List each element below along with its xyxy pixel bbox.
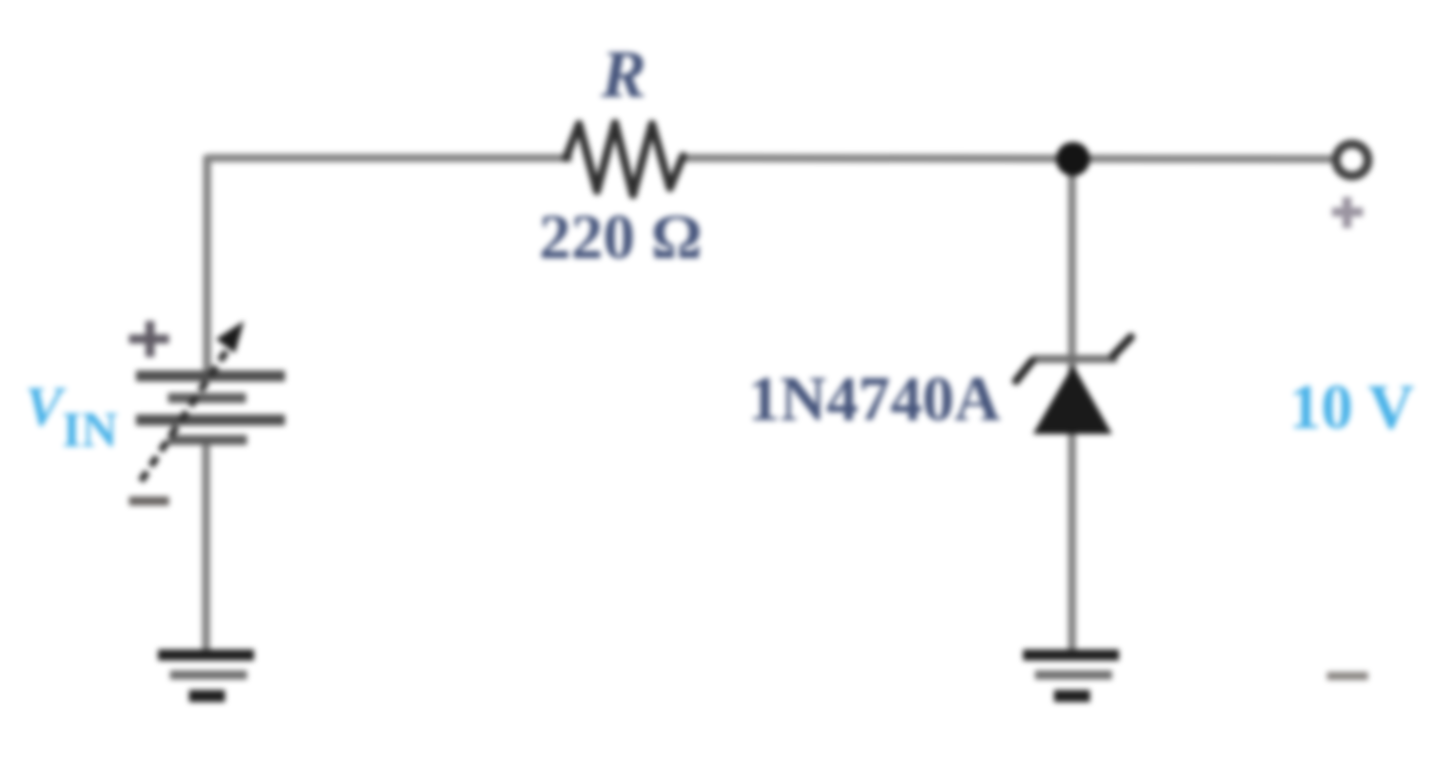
svg-text:V: V (25, 376, 67, 438)
battery variable arrow head (216, 321, 244, 353)
zener cathode right bent tail (1113, 337, 1131, 356)
svg-text:10 V: 10 V (1289, 371, 1414, 442)
output plus sign (1332, 197, 1363, 228)
wire left vertical lower (battery bottom to ground) (202, 443, 210, 652)
svg-text:IN: IN (62, 401, 118, 457)
output minus sign (1327, 672, 1368, 680)
ground (right, under zener) (1023, 655, 1119, 696)
wire left vertical upper (corner down to battery top plate) (203, 155, 211, 377)
battery VIN plate long top (136, 371, 285, 382)
wire top horizontal left segment (source corner to resistor) (207, 154, 572, 162)
svg-text:R: R (600, 36, 646, 112)
svg-text:1N4740A: 1N4740A (748, 363, 1000, 434)
battery minus sign (129, 497, 169, 506)
battery plus sign (129, 321, 169, 357)
battery VIN plate short bottom (168, 435, 247, 445)
zener diode 1N4740A cathode bar (1032, 355, 1117, 363)
battery VIN plate short upper (168, 393, 246, 403)
svg-text:220 Ω: 220 Ω (539, 201, 702, 272)
resistor R (zigzag) (566, 123, 683, 195)
wire right vertical (junction through zener to ground) (1068, 158, 1076, 652)
zener diode triangle (anode) (1033, 365, 1112, 434)
zener cathode left bent tail (1016, 361, 1032, 381)
ground (left, under battery) (158, 655, 254, 696)
battery variable arrow shaft (dashed diagonal) (141, 335, 237, 481)
junction node dot (1056, 142, 1090, 176)
battery VIN plate long lower (136, 415, 285, 426)
output terminal (open circle) (1336, 144, 1368, 176)
wire top horizontal right segment (resistor to output terminal) (681, 158, 1332, 159)
